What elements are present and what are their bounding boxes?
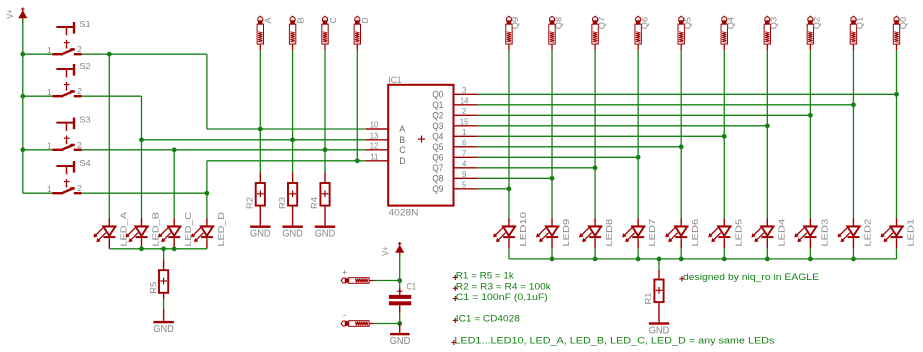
connector header C: [322, 16, 338, 50]
wire Q8 output row: [477, 177, 552, 179]
junction Q2 row/column: [808, 113, 813, 118]
connector header Q4: [721, 16, 736, 50]
power V+ symbol P2: [380, 242, 404, 257]
wire LED6 to bottom rail: [680, 249, 682, 259]
junction right rail / R1 tap: [657, 257, 662, 262]
svg-text:4: 4: [462, 159, 467, 168]
switch S3: [47, 115, 91, 151]
connector + terminal X1: [341, 267, 374, 283]
svg-text:3: 3: [462, 86, 466, 95]
svg-text:1: 1: [47, 46, 52, 55]
svg-text:Q5: Q5: [684, 16, 693, 29]
svg-text:1: 1: [462, 128, 466, 137]
wire LED_A column: [108, 54, 110, 218]
svg-text:LED_C: LED_C: [183, 212, 193, 247]
junction Q5 row/column: [679, 144, 684, 149]
connector header D: [354, 16, 370, 50]
svg-text:2: 2: [77, 184, 82, 193]
wire header B column down to R3: [292, 50, 294, 172]
connector header Q9: [506, 16, 521, 50]
node note2 text: [453, 282, 551, 293]
wire D row to IC: [207, 160, 366, 162]
svg-text:GND: GND: [250, 229, 271, 240]
junction - node: [397, 321, 402, 326]
capacitor C1: [389, 281, 416, 314]
wire right LED bottom rail: [509, 258, 897, 260]
LED LED6: [665, 218, 700, 249]
wire Q1 column: [852, 50, 854, 218]
svg-text:B: B: [399, 135, 405, 145]
svg-text:12: 12: [370, 141, 379, 150]
junction S1-row/LED_A column: [107, 52, 112, 57]
junction right rail col 3: [765, 257, 770, 262]
wire - terminal to node: [375, 323, 400, 325]
connector header Q7: [592, 16, 607, 50]
wire Q7 output row: [477, 167, 595, 169]
svg-text:IC1: IC1: [388, 75, 401, 85]
svg-text:Q4: Q4: [727, 16, 736, 29]
junction right rail col 2: [808, 257, 813, 262]
wire Q2 output row: [477, 114, 810, 116]
svg-text:LED7: LED7: [647, 219, 657, 247]
wire S1 leg down to A row: [206, 54, 208, 129]
LED LED3: [794, 218, 829, 249]
svg-text:LED4: LED4: [776, 219, 786, 247]
wire Q5 column: [680, 50, 682, 218]
wire R5 to GND pin: [163, 299, 165, 309]
svg-text:6: 6: [462, 138, 466, 147]
svg-text:GND: GND: [390, 336, 411, 347]
power V+ symbol P1: [5, 8, 28, 23]
svg-text:LED_A: LED_A: [118, 212, 128, 247]
wire Q4 column: [723, 50, 725, 218]
svg-text:C1 = 100nF (0,1uF): C1 = 100nF (0,1uF): [456, 292, 548, 303]
svg-text:Q1: Q1: [432, 100, 443, 110]
svg-text:R2: R2: [245, 197, 255, 209]
connector header Q1: [850, 16, 865, 50]
wire C1 to - node: [399, 313, 401, 323]
node note4 text: [453, 314, 520, 325]
resistor R1: [643, 269, 663, 322]
svg-text:Q6: Q6: [432, 153, 443, 163]
svg-text:4028N: 4028N: [389, 207, 419, 217]
svg-text:A: A: [399, 124, 405, 134]
svg-text:LED1: LED1: [906, 219, 916, 247]
svg-text:LED_B: LED_B: [151, 212, 161, 247]
ground under C1: [390, 324, 411, 348]
junction rail-S3: [20, 147, 25, 152]
LED LED1: [881, 218, 916, 249]
LED LED8: [579, 218, 614, 249]
wire header C column down to R4: [324, 50, 326, 172]
junction Q0 row/column: [894, 92, 899, 97]
svg-text:LED8: LED8: [604, 219, 614, 247]
wire LED7 to bottom rail: [637, 249, 639, 259]
node note1 text: [453, 271, 514, 282]
svg-text:15: 15: [460, 117, 469, 126]
wire S2 row (net B): [82, 95, 142, 97]
junction right rail col 6: [636, 257, 641, 262]
svg-text:A: A: [264, 17, 273, 24]
resistor R3: [277, 172, 297, 225]
svg-text:IC1 = CD4028: IC1 = CD4028: [456, 314, 520, 325]
LED LED7: [622, 218, 657, 249]
junction Q7 row/column: [593, 165, 598, 170]
junction Q8 row/column: [550, 176, 555, 181]
svg-text:D: D: [361, 17, 370, 23]
connector header Q2: [807, 16, 822, 50]
wire LED_B column: [141, 96, 143, 218]
junction B row / header-B column: [290, 137, 295, 142]
wire LED5 to bottom rail: [723, 249, 725, 259]
wire Q5 output row: [477, 146, 681, 148]
svg-text:GND: GND: [153, 324, 174, 335]
svg-text:S1: S1: [79, 19, 91, 29]
wire Q9 output row: [477, 188, 509, 190]
svg-text:B: B: [296, 17, 305, 24]
wire LED3 to bottom rail: [809, 249, 811, 259]
svg-text:Q0: Q0: [899, 16, 908, 29]
svg-text:2: 2: [77, 45, 82, 54]
svg-text:LED1...LED10, LED_A, LED_B, LE: LED1...LED10, LED_A, LED_B, LED_C, LED_D…: [454, 336, 774, 347]
svg-text:GND: GND: [282, 229, 303, 240]
wire LED4 to bottom rail: [766, 249, 768, 259]
wire B row to IC: [142, 139, 367, 141]
svg-text:Q3: Q3: [432, 121, 443, 131]
wire Q2 column: [809, 50, 811, 218]
wire S4 row from rail: [23, 192, 53, 194]
connector header B: [289, 16, 305, 50]
svg-text:-: -: [343, 310, 346, 321]
svg-text:C: C: [329, 17, 338, 23]
junction Q3 row/column: [765, 123, 770, 128]
ground under R1: [649, 322, 670, 336]
wire rail to S2 pin1: [23, 95, 53, 97]
wire header A column down to R2: [259, 50, 261, 172]
svg-text:Q0: Q0: [432, 90, 443, 100]
svg-text:Q6: Q6: [640, 16, 649, 29]
svg-text:R1 = R5 = 1k: R1 = R5 = 1k: [456, 271, 514, 282]
LED LED2: [837, 218, 872, 249]
svg-text:LED2: LED2: [862, 219, 872, 247]
wire rail to S3 pin1: [23, 149, 53, 151]
LED LED_B: [126, 212, 161, 249]
resistor R5: [148, 259, 168, 299]
junction Q1 row/column: [851, 102, 856, 107]
op-amp U1 (IC1 4028N BCD decoder): [366, 75, 477, 218]
junction Q9 row/column: [507, 186, 512, 191]
svg-text:Q7: Q7: [597, 16, 606, 29]
svg-text:7: 7: [462, 149, 466, 158]
svg-text:V+: V+: [380, 246, 390, 256]
wire Q9 column: [508, 50, 510, 218]
connector - terminal X2: [341, 310, 374, 326]
wire LED2 to bottom rail: [852, 249, 854, 259]
junction left rail LED_C: [172, 246, 177, 251]
svg-text:14: 14: [460, 96, 469, 105]
resistor R2: [245, 172, 265, 225]
resistor R4: [309, 172, 329, 225]
svg-text:LED_D: LED_D: [216, 212, 226, 247]
junction A row / header-A column: [258, 127, 263, 132]
wire S4 row (net D): [82, 192, 207, 194]
wire LED8 to bottom rail: [594, 249, 596, 259]
svg-text:GND: GND: [315, 229, 336, 240]
wire left LED bottom rail: [109, 248, 207, 250]
junction S4 row / LED_D column: [205, 191, 210, 196]
svg-text:R5: R5: [148, 281, 158, 293]
junction rail-S1: [20, 52, 25, 57]
junction rail-S2: [20, 94, 25, 99]
svg-text:Q7: Q7: [432, 163, 443, 173]
wire A row to IC: [207, 128, 366, 130]
svg-text:Q2: Q2: [813, 16, 822, 29]
node designer text: [679, 272, 819, 283]
svg-text:2: 2: [77, 141, 82, 150]
wire LED9 to bottom rail: [551, 249, 553, 259]
wire Q7 column: [594, 50, 596, 218]
node note3 text: [453, 292, 548, 303]
svg-text:C: C: [399, 145, 406, 155]
wire rail to R5: [163, 249, 165, 260]
wire Q4 output row: [477, 135, 724, 137]
svg-text:Q8: Q8: [432, 174, 443, 184]
svg-text:S2: S2: [79, 61, 91, 71]
svg-text:D: D: [399, 156, 405, 166]
wire LED_D column: [206, 161, 208, 218]
svg-text:Q1: Q1: [856, 16, 865, 29]
ground under R3: [282, 226, 303, 240]
wire Q0 column: [896, 50, 898, 218]
junction left rail LED_B: [139, 246, 144, 251]
svg-text:Q8: Q8: [554, 16, 563, 29]
junction C row / header-C column: [323, 147, 328, 152]
svg-text:2: 2: [462, 107, 466, 116]
junction right rail col 7: [593, 257, 598, 262]
wire V+ rail left vertical: [22, 18, 24, 193]
LED LED4: [751, 218, 786, 249]
svg-text:S3: S3: [79, 115, 91, 125]
svg-text:1: 1: [47, 141, 52, 150]
LED LED5: [708, 218, 743, 249]
wire rail to R1: [658, 259, 660, 269]
svg-text:LED3: LED3: [819, 219, 829, 247]
svg-text:LED5: LED5: [733, 219, 743, 247]
connector header Q5: [678, 16, 693, 50]
wire header D column down to D row: [356, 50, 358, 161]
wire Q0 output row: [477, 93, 897, 95]
junction Q6 row/column: [636, 155, 641, 160]
wire Q6 column: [637, 50, 639, 218]
junction + node: [397, 278, 402, 283]
junction right rail col 5: [679, 257, 684, 262]
wire + terminal to node: [375, 280, 400, 282]
wire Q3 output row: [477, 125, 767, 127]
svg-text:1: 1: [47, 185, 52, 194]
svg-text:designed by niq_ro in EAGLE: designed by niq_ro in EAGLE: [683, 272, 819, 283]
svg-text:R1: R1: [643, 292, 653, 304]
LED LED10: [493, 212, 528, 249]
LED LED_D: [191, 212, 226, 249]
switch S1: [47, 19, 91, 55]
svg-text:Q9: Q9: [511, 16, 520, 29]
svg-text:Q4: Q4: [432, 132, 443, 142]
node note5 text: [451, 336, 774, 347]
LED LED9: [536, 218, 571, 249]
connector header Q8: [549, 16, 564, 50]
svg-text:S4: S4: [79, 158, 91, 168]
svg-text:Q9: Q9: [432, 184, 443, 194]
svg-text:C1: C1: [407, 281, 417, 291]
junction right rail col 4: [722, 257, 727, 262]
connector header Q3: [764, 16, 779, 50]
svg-text:Q2: Q2: [432, 111, 443, 121]
connector header Q6: [635, 16, 650, 50]
connector header A: [257, 16, 273, 50]
svg-text:LED6: LED6: [690, 219, 700, 247]
ground under R5: [153, 309, 174, 335]
junction B row / LED_B column: [139, 137, 144, 142]
switch S4: [47, 158, 91, 194]
wire LED10 to bottom rail: [508, 249, 510, 259]
wire Q1 output row: [477, 104, 853, 106]
wire S1 row (net A) to corner: [82, 53, 207, 55]
ground under R2: [250, 226, 271, 240]
svg-text:LED9: LED9: [561, 219, 571, 247]
svg-text:V+: V+: [5, 9, 15, 18]
svg-text:R3: R3: [277, 197, 287, 209]
svg-text:Q3: Q3: [770, 16, 779, 29]
svg-text:13: 13: [370, 131, 379, 140]
wire V+ down to + node: [399, 253, 401, 281]
wire rail to S1 pin1: [23, 53, 53, 55]
svg-text:1: 1: [47, 88, 52, 97]
svg-text:Q5: Q5: [432, 142, 443, 152]
wire Q8 column: [551, 50, 553, 218]
junction left rail R5 tap: [161, 246, 166, 251]
junction C row / LED_C column: [172, 147, 177, 152]
svg-text:9: 9: [462, 170, 466, 179]
junction right rail col 8: [550, 257, 555, 262]
wire Q3 column: [766, 50, 768, 218]
svg-text:5: 5: [462, 180, 467, 189]
wire LED1 to bottom rail: [896, 249, 898, 259]
svg-text:11: 11: [370, 152, 378, 161]
ground under R4: [315, 226, 336, 240]
LED LED_A: [93, 212, 128, 249]
switch S2: [47, 61, 91, 97]
wire LED_C column: [173, 150, 175, 218]
junction D row / header-D column: [355, 158, 360, 163]
wire S3 row = C row to IC: [82, 149, 366, 151]
connector header Q0: [893, 16, 908, 50]
svg-text:2: 2: [77, 87, 82, 96]
svg-text:10: 10: [370, 121, 379, 130]
wire Q6 output row: [477, 156, 638, 158]
LED LED_C: [158, 212, 193, 249]
junction right rail col 1: [851, 257, 856, 262]
svg-text:R4: R4: [309, 197, 319, 209]
svg-text:+: +: [342, 267, 348, 278]
svg-text:LED10: LED10: [518, 212, 528, 247]
junction Q4 row/column: [722, 134, 727, 139]
